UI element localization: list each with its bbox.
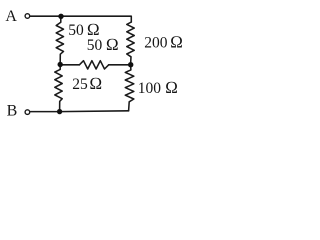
resistor R4 25ohm vertical left-bottom	[55, 67, 62, 112]
svg-text:200Ω: 200Ω	[144, 33, 183, 52]
svg-text:25Ω: 25Ω	[72, 74, 102, 93]
wire bottom: J4 to bottom-right corner	[60, 110, 129, 113]
svg-text:100Ω: 100Ω	[138, 78, 178, 97]
wire bottom: B terminal to J4	[30, 111, 59, 113]
junction node J4	[57, 109, 62, 114]
svg-text:A: A	[5, 8, 17, 25]
svg-text:B: B	[7, 103, 18, 120]
resistor R1 50ohm vertical left-top	[56, 16, 63, 62]
terminal B open circle	[25, 110, 30, 115]
wire middle right: zigzag to J3	[109, 64, 131, 66]
wire middle left: J2 to zigzag	[60, 64, 79, 66]
resistor R5 100ohm vertical right-bottom	[125, 67, 134, 111]
resistor R2 200ohm vertical right-top	[127, 22, 134, 62]
junction node J2	[58, 62, 63, 67]
junction node J1	[58, 14, 63, 19]
junction node J3	[128, 62, 133, 67]
terminal A open circle	[25, 14, 30, 19]
wire A terminal to node J1	[30, 15, 61, 17]
wire top: J1 to top-right corner	[61, 16, 131, 22]
resistor R3 50ohm horizontal middle	[79, 61, 108, 69]
